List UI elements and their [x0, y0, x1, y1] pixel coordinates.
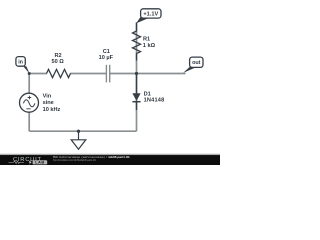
- svg-text:out: out: [192, 60, 201, 66]
- wire: C1 right plate to node B: [110, 73, 137, 75]
- svg-text:R1: R1: [143, 36, 150, 42]
- out flag text: [192, 60, 201, 66]
- svg-text:in: in: [18, 60, 23, 66]
- label R2: [55, 53, 62, 59]
- CircuitLab logo word CIRCUIT: [13, 157, 42, 163]
- +1.1V supply flag text: [143, 11, 158, 17]
- CircuitLab logo LAB badge text: [35, 160, 44, 165]
- label C1: [103, 49, 110, 55]
- label Vin: [43, 93, 52, 99]
- capacitor C1 left plate: [105, 65, 107, 83]
- wire: Vin bottom to bottom rail: [28, 112, 30, 131]
- in flag tail: [22, 64, 30, 73]
- svg-text:Vin: Vin: [43, 93, 52, 99]
- footer credit line 1: [53, 155, 130, 159]
- resistor R2 zigzag: [47, 69, 71, 77]
- Vin minus sign: [26, 108, 30, 110]
- Vin sine wave: [23, 100, 35, 107]
- svg-text:10 kHz: 10 kHz: [43, 107, 61, 113]
- capacitor C1 right plate: [109, 65, 111, 83]
- value 10 kHz: [43, 107, 61, 113]
- wire: R1 top lead (dark): [136, 22, 138, 31]
- diode D1 anode triangle: [132, 93, 140, 101]
- wire: D1 bottom lead (dark): [136, 102, 138, 110]
- CircuitLab logo LAB badge: [33, 160, 48, 164]
- value 1N4148: [144, 98, 165, 104]
- svg-text:sine: sine: [43, 100, 54, 106]
- label R1: [143, 36, 150, 42]
- svg-text:1N4148: 1N4148: [144, 98, 165, 104]
- Vin plus sign: [28, 96, 32, 100]
- footer bar top fade: [0, 154, 220, 156]
- svg-text:http://circuitlab.com/c/z4v5b2: http://circuitlab.com/c/z4v5b2/lab06-par…: [53, 158, 96, 162]
- svg-text:LAB: LAB: [35, 160, 44, 165]
- in flag box: [16, 57, 25, 67]
- value 1 kohm: [143, 43, 156, 49]
- svg-text:10 µF: 10 µF: [99, 55, 114, 61]
- svg-text:1 kΩ: 1 kΩ: [143, 43, 156, 49]
- out flag box: [190, 57, 203, 67]
- voltage source Vin circle: [20, 93, 39, 112]
- wire: R2 right terminal to C1 left plate: [70, 73, 106, 75]
- wire: R1 bottom lead (dark): [136, 53, 138, 60]
- out flag tail: [183, 67, 194, 73]
- junction ground tap dot: [77, 130, 80, 133]
- +1.1V supply flag box: [141, 9, 161, 18]
- svg-text:lab06.part1.3b: lab06.part1.3b: [109, 155, 130, 159]
- value 10 uF: [99, 55, 114, 61]
- resistor R1 zigzag (vertical): [133, 31, 141, 54]
- wire: D1 top lead (dark): [136, 74, 138, 94]
- footer credit line 2: [53, 158, 96, 162]
- svg-text:+1.1V: +1.1V: [143, 11, 158, 17]
- wire: bottom ground rail: [29, 130, 136, 132]
- value sine: [43, 100, 54, 106]
- CircuitLab logo bolt: [29, 160, 32, 165]
- svg-text:50 Ω: 50 Ω: [52, 59, 65, 65]
- diode D1 cathode bar: [132, 101, 140, 103]
- wire: vertical lead from +1.1V tail through R1 and D1 column to bottom rail: [136, 23, 138, 132]
- value 50 ohm: [52, 59, 65, 65]
- wire: main horizontal node, in-junction to R2 left terminal: [29, 73, 47, 75]
- junction node B dot: [135, 72, 138, 75]
- footer bar: [0, 155, 220, 165]
- junction node A dot: [28, 72, 31, 75]
- ground symbol stub: [78, 131, 80, 140]
- ground symbol triangle: [71, 140, 86, 150]
- in flag text: [18, 60, 23, 66]
- svg-text:R2: R2: [55, 53, 62, 59]
- CircuitLab logo wire squiggle: [9, 161, 25, 163]
- wire: node B to out flag tail: [137, 73, 186, 75]
- label D1: [144, 92, 151, 98]
- +1.1V supply flag tail: [136, 17, 148, 24]
- wire: left column, in-junction down to Vin top: [28, 74, 30, 94]
